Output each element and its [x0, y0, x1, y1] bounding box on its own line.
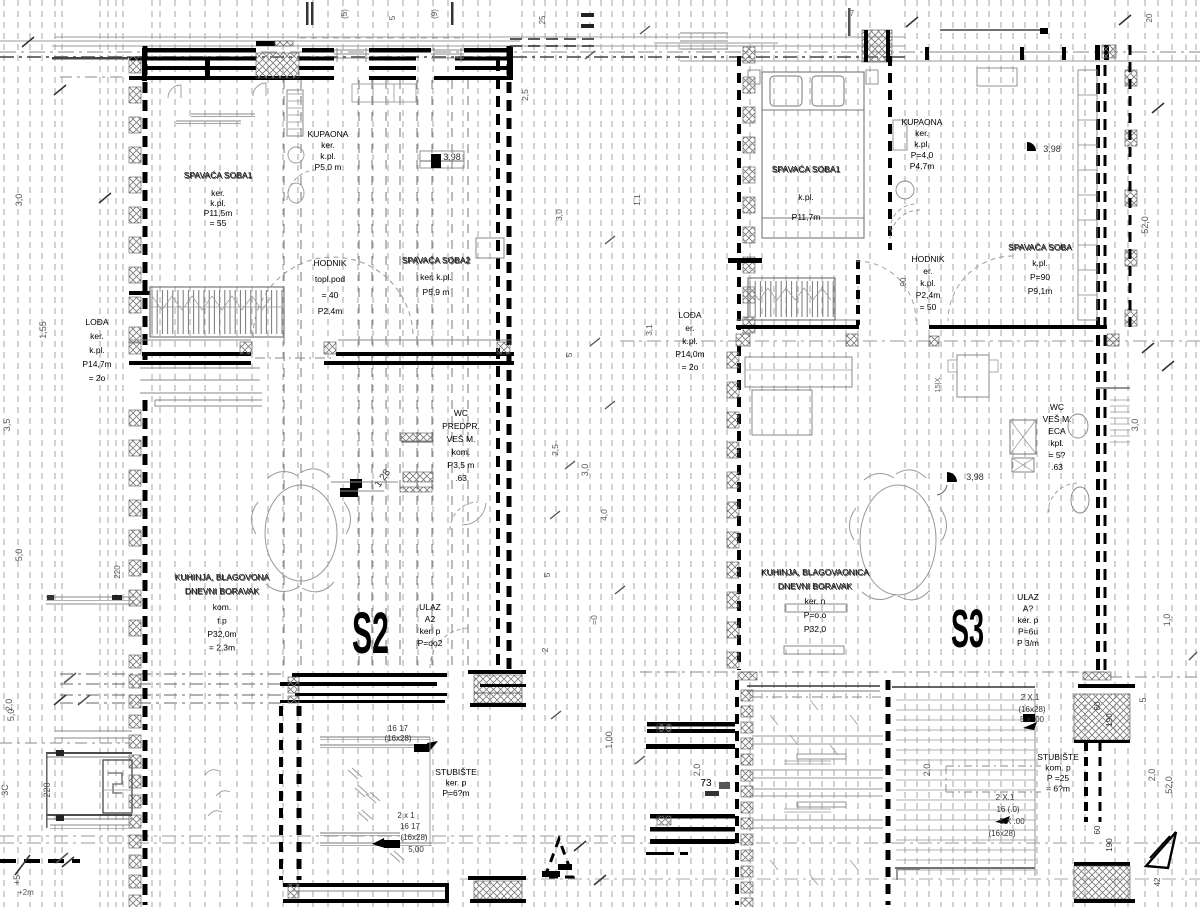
- svg-text:PREDPR.: PREDPR.: [442, 421, 480, 431]
- svg-text:P=o.o: P=o.o: [804, 610, 827, 620]
- svg-text:ULAZ: ULAZ: [419, 602, 441, 612]
- svg-text:SPAVAĆA SOBA1: SPAVAĆA SOBA1: [773, 165, 842, 175]
- svg-text:3,5: 3,5: [2, 419, 12, 432]
- svg-text:ker. k.pl.: ker. k.pl.: [420, 272, 452, 282]
- svg-text:DNEVNI BORAVAK: DNEVNI BORAVAK: [779, 582, 854, 592]
- svg-text:2,0: 2,0: [922, 764, 932, 777]
- svg-text:VEŠ M.: VEŠ M.: [447, 434, 476, 444]
- svg-text:A?: A?: [1023, 604, 1034, 614]
- svg-text:kom. p: kom. p: [1045, 763, 1071, 773]
- svg-text:P5,9 m: P5,9 m: [423, 287, 450, 297]
- svg-text:P=4,0: P=4,0: [911, 150, 934, 160]
- svg-text:ker. p: ker. p: [446, 778, 467, 788]
- svg-text:er.: er.: [923, 266, 932, 276]
- svg-text:90: 90: [899, 277, 908, 286]
- svg-text:ker.: ker.: [90, 331, 104, 341]
- svg-text:kpl.: kpl.: [1050, 438, 1063, 448]
- svg-text:P 3/m: P 3/m: [1017, 638, 1039, 648]
- svg-text:190: 190: [1105, 838, 1114, 852]
- svg-text:2 X.1: 2 X.1: [1021, 693, 1040, 702]
- svg-text:25: 25: [538, 15, 547, 24]
- svg-text:P2,4m: P2,4m: [916, 290, 941, 300]
- svg-text:P5,0 m: P5,0 m: [315, 162, 342, 172]
- svg-text:ker. p: ker. p: [1018, 615, 1039, 625]
- svg-text:k.pl.: k.pl.: [89, 345, 105, 355]
- svg-text:(16x28): (16x28): [988, 829, 1015, 838]
- svg-text:= 5?: = 5?: [1049, 450, 1066, 460]
- svg-text:P14,0m: P14,0m: [675, 349, 704, 359]
- svg-text:DNEVNI BORAVAK: DNEVNI BORAVAK: [186, 587, 261, 597]
- svg-text:60: 60: [1093, 701, 1102, 710]
- svg-text:= 55: = 55: [210, 218, 227, 228]
- svg-text:A2: A2: [425, 614, 436, 624]
- svg-text:20: 20: [1145, 13, 1154, 22]
- svg-text:k.pl.: k.pl.: [682, 336, 698, 346]
- svg-text:P32,0: P32,0: [804, 624, 826, 634]
- svg-text:ker. p: ker. p: [420, 626, 441, 636]
- svg-text:HODNIK: HODNIK: [911, 254, 944, 264]
- svg-text:= 2,3m: = 2,3m: [209, 643, 235, 653]
- svg-text:ker. n: ker. n: [805, 596, 826, 606]
- svg-text:= 50: = 50: [920, 302, 937, 312]
- svg-text:7: 7: [850, 9, 855, 18]
- svg-text:2,0: 2,0: [1147, 769, 1157, 782]
- svg-text:k.pl.: k.pl.: [798, 192, 814, 202]
- svg-text:5: 5: [388, 15, 397, 20]
- svg-text:= 40: = 40: [322, 290, 339, 300]
- svg-text:3,0: 3,0: [554, 209, 564, 221]
- svg-text:16 17: 16 17: [400, 822, 421, 831]
- svg-text:STUBIŠTE: STUBIŠTE: [1037, 752, 1079, 762]
- svg-text:P3,5 m: P3,5 m: [448, 460, 475, 470]
- svg-text:73: 73: [700, 778, 712, 789]
- svg-text:LOĐA: LOĐA: [678, 310, 701, 320]
- svg-text:52,0: 52,0: [1164, 776, 1174, 794]
- svg-text:= 2o: = 2o: [89, 373, 106, 383]
- svg-text:(16x28): (16x28): [400, 833, 427, 842]
- svg-text:3,98: 3,98: [443, 152, 461, 162]
- svg-text:SPAVAĆA SOBA: SPAVAĆA SOBA: [1009, 243, 1073, 253]
- svg-text:2: 2: [540, 647, 550, 652]
- svg-text:LOĐA: LOĐA: [85, 317, 108, 327]
- svg-text:k.pl.: k.pl.: [1032, 258, 1048, 268]
- svg-text:220: 220: [42, 782, 52, 797]
- svg-text:2,5: 2,5: [550, 444, 560, 456]
- svg-text:= 6?m: = 6?m: [1046, 784, 1070, 794]
- svg-text:60: 60: [1093, 825, 1102, 834]
- svg-text:P11,5m: P11,5m: [204, 208, 233, 218]
- svg-text:42: 42: [1153, 877, 1162, 886]
- svg-text:+2m: +2m: [18, 888, 34, 897]
- svg-text:2 x 1: 2 x 1: [397, 811, 415, 820]
- svg-text:(16x28): (16x28): [384, 734, 411, 743]
- svg-text:5 X .00: 5 X .00: [999, 817, 1025, 826]
- svg-text:k.pl.: k.pl.: [210, 198, 226, 208]
- svg-text:(16x28): (16x28): [1018, 705, 1045, 714]
- svg-text:+5: +5: [12, 875, 22, 885]
- svg-text:P =25: P =25: [1047, 773, 1070, 783]
- svg-text:3,0: 3,0: [580, 464, 590, 477]
- svg-text:1,0: 1,0: [1162, 614, 1172, 627]
- svg-text:ECA: ECA: [1048, 426, 1066, 436]
- svg-text:ker.: ker.: [321, 140, 335, 150]
- svg-text:P=6u: P=6u: [1018, 627, 1038, 637]
- svg-text:P32,0m: P32,0m: [207, 629, 236, 639]
- svg-text:3,1: 3,1: [644, 324, 654, 336]
- svg-text:2,0: 2,0: [4, 699, 14, 712]
- svg-text:P=oo2: P=oo2: [418, 638, 443, 648]
- svg-text:t.p: t.p: [217, 616, 227, 626]
- svg-text:2,5: 2,5: [520, 89, 530, 101]
- svg-text:SPAVAĆA SOBA2: SPAVAĆA SOBA2: [403, 256, 472, 266]
- svg-text:ker.: ker.: [211, 188, 225, 198]
- svg-text:16 (.0): 16 (.0): [996, 805, 1019, 814]
- svg-text:3C: 3C: [0, 784, 10, 796]
- svg-text:5 x .00: 5 x .00: [1020, 715, 1045, 724]
- svg-text:2 X.1: 2 X.1: [996, 793, 1015, 802]
- svg-text:5: 5: [542, 572, 552, 577]
- svg-text:190: 190: [1105, 713, 1114, 727]
- svg-text:STUBIŠTE: STUBIŠTE: [435, 767, 477, 777]
- svg-text:k.pl.: k.pl.: [914, 139, 930, 149]
- svg-text:k.pl.: k.pl.: [920, 278, 936, 288]
- svg-text:5,00: 5,00: [408, 845, 424, 854]
- svg-text:2,0: 2,0: [692, 764, 702, 777]
- svg-text:1,55: 1,55: [38, 321, 48, 339]
- svg-text:KUHINJA, BLAGOVAONICA: KUHINJA, BLAGOVAONICA: [762, 568, 870, 578]
- svg-text:P9,1m: P9,1m: [1028, 286, 1053, 296]
- svg-text:kom.: kom.: [452, 447, 470, 457]
- svg-text:16 17: 16 17: [388, 724, 409, 733]
- svg-text:topl.pod: topl.pod: [315, 274, 346, 284]
- svg-text:3,98: 3,98: [1043, 144, 1061, 154]
- svg-text:=0: =0: [589, 615, 599, 625]
- svg-text:WC: WC: [454, 408, 468, 418]
- svg-text:.63: .63: [1051, 462, 1063, 472]
- svg-text:P14,7m: P14,7m: [82, 359, 111, 369]
- svg-text:P=6?m: P=6?m: [442, 788, 469, 798]
- svg-text:1,1: 1,1: [632, 194, 642, 206]
- svg-text:P=90: P=90: [1030, 272, 1050, 282]
- svg-text:HODNIK: HODNIK: [313, 258, 346, 268]
- svg-text:KUPAONA: KUPAONA: [902, 117, 943, 127]
- svg-text:P4,7m: P4,7m: [910, 161, 935, 171]
- svg-text:P11,7m: P11,7m: [792, 212, 821, 222]
- svg-text:4,0: 4,0: [599, 509, 609, 521]
- svg-text:= 2o: = 2o: [682, 362, 699, 372]
- svg-text:k.pl.: k.pl.: [320, 151, 336, 161]
- svg-text:1,00: 1,00: [604, 731, 614, 749]
- svg-text:S3: S3: [951, 599, 984, 660]
- svg-text:3,0: 3,0: [1130, 419, 1140, 432]
- svg-text:3,0: 3,0: [14, 194, 24, 207]
- svg-text:WC: WC: [1050, 402, 1064, 412]
- svg-text:5,0: 5,0: [14, 549, 24, 562]
- svg-text:KUPAONA: KUPAONA: [308, 129, 349, 139]
- svg-text:5: 5: [564, 352, 574, 357]
- svg-text:S2: S2: [352, 600, 389, 665]
- svg-text:er.: er.: [685, 323, 694, 333]
- svg-text:VEŠ M.: VEŠ M.: [1043, 414, 1072, 424]
- svg-text:220: 220: [113, 565, 122, 579]
- svg-text:15|X: 15|X: [933, 377, 942, 392]
- svg-text:52,0: 52,0: [1140, 216, 1150, 234]
- svg-text:P2,4m: P2,4m: [318, 306, 343, 316]
- svg-text:(5): (5): [340, 9, 349, 19]
- svg-text:kom.: kom.: [213, 602, 231, 612]
- svg-text:3,98: 3,98: [966, 472, 984, 482]
- svg-text:5: 5: [1138, 697, 1148, 702]
- svg-text:SPAVAĆA SOBA1: SPAVAĆA SOBA1: [185, 171, 254, 181]
- svg-text:KUHINJA, BLAGOVONA: KUHINJA, BLAGOVONA: [176, 573, 271, 583]
- svg-text:.63: .63: [455, 473, 467, 483]
- svg-text:ULAZ: ULAZ: [1017, 592, 1039, 602]
- svg-text:(9): (9): [430, 9, 439, 19]
- svg-text:ker.: ker.: [915, 128, 929, 138]
